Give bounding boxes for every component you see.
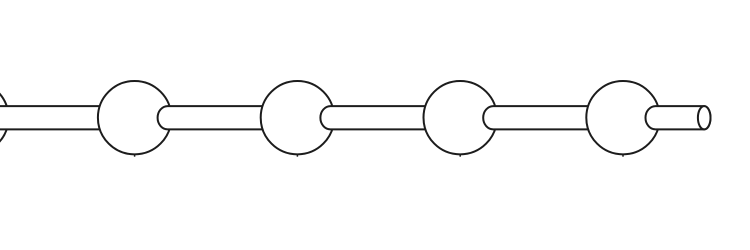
tick ball B4 <box>622 154 624 157</box>
ball B3 <box>424 81 497 154</box>
rod R1 <box>158 106 304 129</box>
tick ball B1 <box>134 154 136 157</box>
rod R4 (end stub) <box>646 106 711 129</box>
ball B1 <box>98 81 171 154</box>
ball B4 <box>586 81 659 154</box>
tick ball B3 <box>459 154 461 157</box>
ball B2 <box>261 81 334 154</box>
rod R0 <box>0 106 140 129</box>
rod R4 end face ellipse <box>698 106 711 129</box>
ball B0 (partial, left edge) <box>0 81 9 154</box>
tick ball B2 <box>296 154 298 157</box>
rod R2 <box>320 106 466 129</box>
rod R3 <box>483 106 629 129</box>
